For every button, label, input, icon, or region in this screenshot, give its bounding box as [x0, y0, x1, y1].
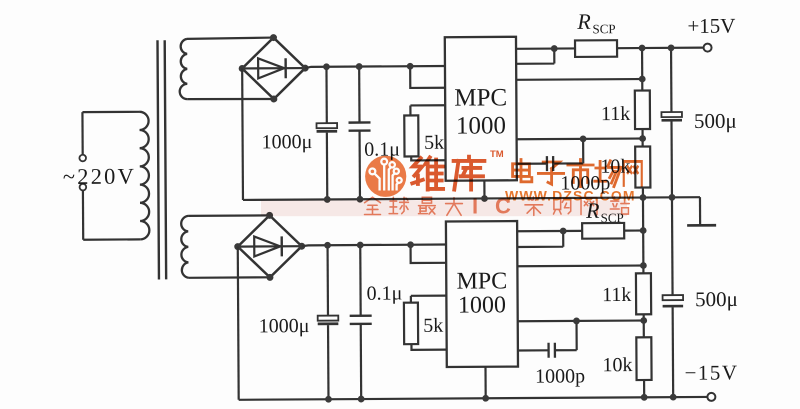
char 网	[624, 161, 642, 185]
band char 网	[581, 198, 597, 215]
bottom rail2 from bridge B2	[302, 245, 446, 247]
svg-text:WWW.DZSC.COM: WWW.DZSC.COM	[505, 188, 636, 204]
svg-text:5k: 5k	[423, 315, 443, 337]
resistor R7 11k	[636, 273, 651, 314]
wire S1 top	[187, 38, 274, 39]
wire U1 pin3 to divider top	[516, 78, 642, 81]
svg-text:~220V: ~220V	[63, 164, 136, 189]
capacitor C3 1000p	[517, 163, 547, 165]
secondary winding S1	[179, 39, 187, 99]
char 电	[513, 160, 532, 182]
svg-text:+15V: +15V	[687, 14, 735, 38]
svg-text:−15V: −15V	[684, 360, 738, 384]
wire U1 pin4 to divider mid	[517, 137, 643, 140]
bridge rectifier B2	[238, 215, 302, 277]
wire U2 pin1 to R_SCP2	[517, 230, 582, 233]
junction dots top rail	[323, 44, 677, 402]
svg-text:R: R	[576, 9, 591, 34]
wire U1 pin1 to R_SCP	[516, 47, 575, 50]
primary winding L1	[139, 112, 149, 240]
transformer core	[157, 40, 166, 279]
wire U2 pin3 to divider top	[517, 264, 643, 267]
node dots bridge B1	[238, 34, 308, 103]
维库 big characters	[412, 157, 484, 190]
resistor R3 11k	[635, 90, 650, 129]
capacitor C1 1000u	[325, 67, 328, 123]
wire primary top	[82, 111, 139, 114]
wire S1 bottom	[187, 97, 274, 100]
logo traces	[370, 159, 402, 191]
svg-text:500μ: 500μ	[695, 287, 738, 311]
op-amp U1 MPC1000	[445, 37, 517, 181]
ground	[699, 197, 701, 225]
wire primary bottom	[83, 238, 140, 241]
band char 全	[365, 197, 381, 214]
svg-text:MPC: MPC	[454, 84, 507, 111]
junction dots divider2	[640, 262, 647, 269]
band char 大	[446, 198, 463, 216]
resistor R2 R_SCP	[575, 40, 617, 57]
wire primary left lower	[82, 190, 85, 239]
junction dots R_SCP2 wire	[560, 228, 567, 235]
junction dots bottom rail	[325, 396, 332, 403]
diode inside B1	[242, 67, 305, 70]
svg-text:1000μ: 1000μ	[262, 131, 313, 153]
wire primary left upper	[81, 112, 83, 155]
terminal circle lower	[80, 184, 87, 191]
svg-text:1000: 1000	[458, 292, 506, 318]
capacitor C4 500u	[670, 48, 673, 112]
capacitor C6 0.1u	[359, 245, 362, 316]
capacitor C8 500u	[671, 197, 674, 295]
bottom DC rail	[239, 397, 708, 400]
junction dots rail2	[324, 242, 331, 249]
电子市场网 characters	[513, 160, 642, 187]
band char 球	[389, 197, 408, 213]
capacitor C2 0.1u	[358, 67, 361, 123]
char 场	[595, 161, 621, 187]
svg-text:MPC: MPC	[456, 268, 507, 294]
resistor R1 5k with MPC1 input wires	[410, 66, 445, 88]
terminal -15V	[707, 393, 715, 401]
junction dots +15V wire	[551, 45, 558, 52]
char 市	[568, 160, 593, 187]
svg-text:0.1μ: 0.1μ	[366, 282, 402, 304]
svg-text:1000μ: 1000μ	[259, 315, 310, 337]
char 库	[454, 157, 485, 190]
wire S2 top	[188, 214, 269, 217]
node dots bridge B2	[234, 212, 305, 281]
svg-text:11k: 11k	[602, 284, 631, 306]
op-amp U2 MPC1000	[446, 221, 518, 367]
terminal circle upper	[79, 155, 86, 162]
top DC rail	[305, 66, 445, 68]
wire divider chain vertical	[641, 48, 643, 90]
wire U1 pin2	[516, 49, 554, 64]
resistor R8 10k	[636, 337, 651, 380]
wire B1 minus down to ground rail	[241, 68, 244, 199]
wire B2 minus down to bottom rail	[237, 247, 240, 400]
svg-text:1000: 1000	[456, 112, 506, 139]
char 维	[412, 157, 443, 189]
svg-text:SCP: SCP	[592, 21, 615, 36]
band char 最	[419, 197, 436, 214]
wire divider chain vertical bottom	[642, 198, 645, 274]
svg-text:11k: 11k	[601, 103, 630, 125]
svg-text:5k: 5k	[424, 132, 444, 154]
dzsc logo circle	[365, 156, 406, 197]
band char 购	[554, 199, 571, 215]
wire U2 pin4 to divider mid	[518, 319, 644, 322]
ground rail	[243, 197, 700, 200]
svg-text:10k: 10k	[602, 354, 632, 376]
svg-text:TM: TM	[490, 149, 504, 160]
char 子	[538, 162, 563, 184]
band char 站	[610, 197, 629, 214]
terminal +15V	[704, 44, 712, 52]
junction dots divider top	[639, 76, 646, 83]
capacitor C7 1000p	[518, 349, 548, 351]
bridge rectifier B1	[242, 37, 305, 99]
band char 采	[525, 197, 543, 215]
svg-text:I: I	[472, 194, 478, 219]
wire U2 bottom pin	[484, 367, 486, 398]
svg-text:500μ: 500μ	[694, 109, 737, 133]
resistor R4 10k	[635, 146, 650, 187]
wire S2 bottom	[188, 276, 269, 279]
secondary winding S2	[181, 216, 188, 278]
watermark band	[261, 200, 627, 216]
wire U1 bottom pin	[483, 180, 485, 198]
capacitor C5 1000u	[326, 245, 329, 315]
svg-text:1000p: 1000p	[535, 365, 585, 387]
resistor R5 5k with MPC2 input wires	[411, 245, 447, 264]
junction dots ground rail	[324, 196, 331, 203]
wire U2 pin2	[517, 231, 563, 247]
diode inside B2	[238, 245, 302, 248]
resistor R6 R_SCP	[582, 223, 624, 239]
